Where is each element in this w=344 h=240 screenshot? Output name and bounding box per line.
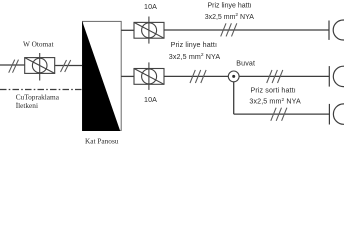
breaker W1 (W Otomat) (25, 53, 55, 81)
conductor slashes wire 1 (221, 23, 237, 36)
junction box Buvat (228, 71, 239, 82)
svg-text:3x2,5 mm2 NYA: 3x2,5 mm2 NYA (249, 97, 301, 106)
svg-text:10A: 10A (144, 96, 157, 104)
wire panel to fuse F2 (121, 75, 134, 77)
wire main feeder right segment (55, 65, 83, 67)
svg-text:Priz linye hattı: Priz linye hattı (171, 41, 217, 49)
wire priz sorti (Buvat to socket 3) (234, 113, 330, 115)
svg-text:10A: 10A (144, 3, 157, 11)
wire main feeder left segment (0, 64, 25, 66)
wire priz linye 1 (F1 to socket 1) (164, 29, 329, 31)
svg-text:Priz linye hattı: Priz linye hattı (208, 3, 252, 10)
wire panel to fuse F1 (121, 29, 134, 31)
conductor slashes group B (after W Otomat) (61, 60, 71, 72)
svg-text:Priz sorti hattı: Priz sorti hattı (251, 86, 296, 94)
ground conductor dash-dot line (0, 89, 84, 91)
fuse F1 (10A) (134, 17, 164, 44)
svg-text:İletkeni: İletkeni (16, 101, 38, 110)
panel filled triangle (82, 21, 120, 131)
wire priz linye 2 (F2 to socket 2) (164, 75, 329, 77)
svg-text:3x2,5 mm2 NYA: 3x2,5 mm2 NYA (169, 52, 221, 61)
conductor slashes wire 2 before junction (190, 70, 206, 83)
svg-text:Kat Panosu: Kat Panosu (85, 136, 119, 145)
socket P3 (329, 104, 344, 125)
conductor slashes group A (before W Otomat) (9, 60, 19, 73)
svg-text:Buvat: Buvat (236, 59, 255, 67)
svg-text:W Otomat: W Otomat (23, 40, 53, 49)
conductor slashes sorti wire (271, 108, 287, 121)
panel box outline (Kat Panosu) (83, 21, 122, 130)
svg-text:3x2,5 mm2 NYA: 3x2,5 mm2 NYA (205, 12, 255, 21)
socket P2 (329, 66, 344, 87)
conductor slashes wire 2 after junction (267, 70, 283, 83)
fuse F2 (10A) (134, 62, 164, 90)
wire drop from Buvat (233, 82, 235, 114)
socket P1 (329, 20, 344, 40)
